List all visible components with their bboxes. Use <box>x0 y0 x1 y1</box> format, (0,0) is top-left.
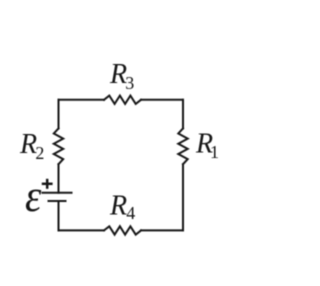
resistor R1 <box>178 128 187 164</box>
wire top-left horizontal segment <box>59 99 105 101</box>
svg-text:ε: ε <box>25 171 42 221</box>
svg-text:1: 1 <box>210 142 219 162</box>
svg-text:R: R <box>109 190 127 221</box>
wire right top vertical segment <box>182 100 184 129</box>
svg-text:3: 3 <box>125 73 134 93</box>
wire from battery to bottom-left corner <box>58 201 60 230</box>
wire top-right horizontal segment <box>141 99 183 101</box>
resistor R2 <box>54 128 63 164</box>
label R1 <box>195 129 219 163</box>
wire left top vertical segment <box>58 100 60 129</box>
svg-text:2: 2 <box>35 143 44 163</box>
resistor R4 <box>104 226 141 234</box>
label R2 <box>19 129 44 163</box>
battery negative plate <box>48 200 67 202</box>
battery plus sign <box>42 179 53 189</box>
battery positive plate <box>42 192 73 194</box>
svg-text:4: 4 <box>126 203 135 223</box>
label EMF script epsilon <box>25 171 42 221</box>
svg-text:R: R <box>19 129 37 160</box>
wire from R2 to battery <box>58 164 60 193</box>
label R4 <box>109 190 135 223</box>
label R3 <box>109 59 134 93</box>
wire right bottom vertical segment <box>182 164 184 230</box>
resistor R3 <box>104 96 141 104</box>
wire bottom-right horizontal segment <box>141 229 183 231</box>
wire bottom-left horizontal segment <box>59 229 105 231</box>
